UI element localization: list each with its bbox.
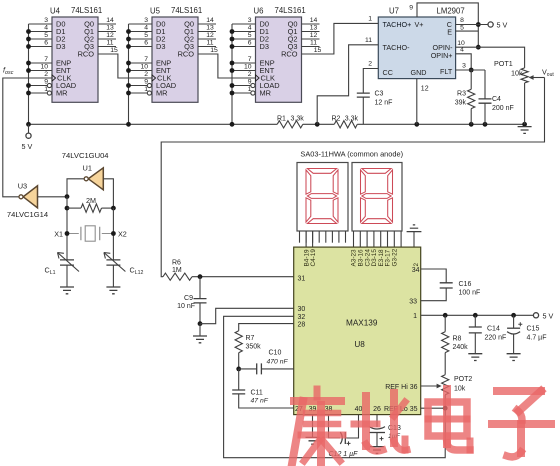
wire C13 to ground <box>376 433 378 447</box>
label 74LVC1GU04 <box>62 151 109 160</box>
svg-text:10: 10 <box>40 64 48 71</box>
svg-text:1: 1 <box>44 86 48 93</box>
display digit 1 segments <box>306 169 338 224</box>
svg-text:3: 3 <box>144 17 148 24</box>
svg-text:6: 6 <box>144 40 148 47</box>
supply terminal 5V right <box>533 313 538 318</box>
label 2M <box>86 196 96 205</box>
wire U5 RCO to U6 CLK <box>198 54 256 78</box>
svg-text:5: 5 <box>460 25 464 32</box>
svg-text:RCO: RCO <box>281 50 298 59</box>
svg-text:POT1: POT1 <box>494 59 513 68</box>
ground under C9 <box>193 336 207 343</box>
wire POT2 bottom <box>444 395 446 408</box>
label SA03-11HWA <box>300 150 403 159</box>
svg-text:12 nF: 12 nF <box>375 100 393 107</box>
label POT2 <box>454 376 472 393</box>
wire C16 to pin 33 <box>421 288 447 301</box>
wire pin 34 to C16 <box>421 269 447 283</box>
svg-text:350k: 350k <box>246 344 262 351</box>
pin 38 label <box>325 406 333 413</box>
svg-text:40: 40 <box>355 406 363 413</box>
svg-text:13: 13 <box>106 25 114 32</box>
svg-text:13: 13 <box>310 25 318 32</box>
label C15 <box>527 326 547 342</box>
capacitor C4 <box>479 99 492 103</box>
svg-text:3.3k: 3.3k <box>291 116 305 123</box>
svg-text:14: 14 <box>310 17 318 24</box>
svg-text:74LVC1G14: 74LVC1G14 <box>7 210 48 219</box>
svg-text:4: 4 <box>144 25 148 32</box>
svg-text:6: 6 <box>248 40 252 47</box>
label U7 <box>389 7 399 16</box>
wire TACHO- to R1/R2 junction <box>317 45 378 125</box>
svg-text:1: 1 <box>413 313 417 320</box>
node fosc wire <box>3 78 52 197</box>
label C3 <box>375 91 393 107</box>
svg-text:2M: 2M <box>86 196 96 205</box>
display digit 2 segments <box>361 169 393 224</box>
svg-text:SA03-11HWA (common anode): SA03-11HWA (common anode) <box>300 150 403 159</box>
svg-text:11: 11 <box>106 40 113 47</box>
svg-text:74LS161: 74LS161 <box>171 6 202 15</box>
resistor R8 <box>442 332 449 353</box>
ground under C15 <box>507 354 521 361</box>
pin 11 label <box>365 37 372 44</box>
capacitor C11 <box>232 390 245 394</box>
junction V+ / C <box>476 22 481 27</box>
capacitor C3 <box>357 93 370 97</box>
junction on rail <box>483 122 488 127</box>
svg-text:3: 3 <box>44 17 48 24</box>
wire C10 right lead <box>261 368 293 370</box>
potentiometer POT1 <box>521 68 528 83</box>
capacitor C14 <box>469 327 482 333</box>
svg-text:OPIN+: OPIN+ <box>431 51 453 60</box>
svg-text:C14: C14 <box>487 326 500 333</box>
svg-text:U3: U3 <box>18 182 27 191</box>
label C14 <box>485 326 507 342</box>
label R7 <box>246 335 262 351</box>
svg-text:11: 11 <box>310 40 317 47</box>
junction on rail <box>26 122 31 127</box>
junction on rail <box>469 122 474 127</box>
wire C15 top lead <box>513 315 515 328</box>
label R2 <box>332 116 359 123</box>
svg-text:74LS161: 74LS161 <box>71 6 102 15</box>
svg-text:11: 11 <box>365 37 372 44</box>
label CL1 <box>45 266 56 277</box>
svg-text:4.7 µF: 4.7 µF <box>527 335 547 342</box>
label X1 <box>54 229 63 238</box>
capacitor C15 (polarized) <box>507 322 522 334</box>
wire CC pin <box>363 69 378 94</box>
svg-text:12: 12 <box>206 32 214 39</box>
label C16 <box>459 281 481 297</box>
label C11 <box>251 390 269 405</box>
svg-text:MR: MR <box>56 89 68 98</box>
svg-text:10k: 10k <box>454 386 466 393</box>
wire C14 to ground <box>474 333 476 354</box>
svg-text:U7: U7 <box>389 7 399 16</box>
junction R6/C9 <box>198 274 203 279</box>
wire pin 28 to R7 <box>239 324 294 331</box>
wire right node vertical <box>112 208 114 260</box>
junction on 5V rail <box>511 313 516 318</box>
svg-text:LM2907: LM2907 <box>437 7 465 16</box>
wire C11 top lead <box>238 369 240 390</box>
svg-text:2: 2 <box>413 263 420 267</box>
svg-text:TACHO+: TACHO+ <box>383 20 412 29</box>
pin 33 label <box>409 299 417 306</box>
junction X1 <box>65 231 70 236</box>
wire OPIN+ pin 4 <box>456 54 472 70</box>
svg-text:4: 4 <box>44 25 48 32</box>
svg-text:5: 5 <box>248 32 252 39</box>
svg-text:1: 1 <box>144 86 148 93</box>
svg-text:10k: 10k <box>511 69 523 78</box>
svg-text:D3: D3 <box>260 42 269 51</box>
pin 34 label <box>412 267 420 274</box>
label REF Hi 36 <box>385 384 417 391</box>
wire U4 RCO to U5 CLK <box>98 54 152 78</box>
svg-text:5: 5 <box>44 32 48 39</box>
capacitor C13 (polarized) <box>369 427 385 441</box>
svg-text:15: 15 <box>110 47 118 54</box>
svg-text:8: 8 <box>460 17 464 24</box>
display digit 2 box <box>352 163 402 232</box>
label MAX139 <box>346 318 378 327</box>
wire display1 B4 riser <box>305 231 307 247</box>
svg-text:POT2: POT2 <box>454 376 472 383</box>
junction E / OPIN- <box>476 45 481 50</box>
wire R3 bottom lead <box>470 109 472 125</box>
ground under C13 <box>370 447 384 454</box>
svg-text:MR: MR <box>156 89 168 98</box>
pin 1 label <box>413 313 417 320</box>
watermark char kang <box>292 389 343 464</box>
svg-text:MAX139: MAX139 <box>346 318 378 327</box>
svg-text:7: 7 <box>248 56 252 63</box>
svg-text:14: 14 <box>206 17 214 24</box>
svg-text:R6: R6 <box>172 260 181 267</box>
junction left node top <box>65 194 70 199</box>
wire U1 output to node <box>67 179 84 197</box>
junction C9/pin30 <box>198 321 203 326</box>
svg-text:12: 12 <box>106 32 114 39</box>
junction on 5V rail <box>473 313 478 318</box>
resistor R1 <box>277 121 303 128</box>
pin 30 label <box>298 306 306 313</box>
supply terminal 5V right of U7 <box>488 22 493 27</box>
label X2 <box>118 229 127 238</box>
ground under C14 <box>468 354 482 361</box>
svg-text:R2: R2 <box>332 116 341 123</box>
pin 3 label <box>462 63 466 70</box>
svg-text:6: 6 <box>44 40 48 47</box>
wire R6 to pin 31 <box>192 276 294 278</box>
node fosc label <box>3 66 14 77</box>
svg-text:5: 5 <box>144 32 148 39</box>
svg-text:200 nF: 200 nF <box>492 105 514 112</box>
label C4 <box>492 96 514 112</box>
svg-text:12: 12 <box>310 32 318 39</box>
wire C11 to pin 27 <box>239 394 294 408</box>
junction 2M left <box>65 206 70 211</box>
junction X2 <box>111 231 116 236</box>
wire C9 top lead <box>199 277 201 299</box>
wire Vout loop <box>161 78 544 277</box>
svg-text:10 nF: 10 nF <box>177 303 195 310</box>
svg-text:C16: C16 <box>459 281 472 288</box>
label U8 <box>354 340 365 349</box>
svg-text:C4-19: C4-19 <box>310 249 317 267</box>
svg-text:1: 1 <box>368 16 372 23</box>
svg-text:7: 7 <box>44 56 48 63</box>
svg-text:C9: C9 <box>184 295 193 302</box>
wire R7 bottom lead <box>238 353 240 369</box>
wire pin 1 5V rail <box>421 314 534 316</box>
label C10 <box>267 350 289 366</box>
ground under CL2 <box>106 287 120 294</box>
resistor 2M <box>81 204 102 212</box>
svg-text:240k: 240k <box>453 344 469 351</box>
counter U4 (74LS161) <box>26 6 118 124</box>
svg-text:14: 14 <box>106 17 114 24</box>
svg-text:MR: MR <box>260 89 272 98</box>
svg-text:15: 15 <box>314 47 322 54</box>
resistor R6 <box>163 273 192 280</box>
wire R8 to POT2 <box>444 353 446 375</box>
pin 39 label <box>309 406 317 413</box>
svg-text:R8: R8 <box>453 336 462 343</box>
pin 10 label <box>457 40 465 47</box>
wire FLT pin 3 <box>456 69 485 71</box>
inverter U3 74LVC1G14 <box>19 186 38 208</box>
svg-text:FLT: FLT <box>440 67 453 76</box>
svg-text:5 V: 5 V <box>543 311 554 320</box>
label C9 <box>177 295 195 310</box>
wire left node vertical <box>66 197 68 260</box>
label R6 <box>172 260 182 275</box>
label C12 <box>329 451 359 458</box>
svg-text:C11: C11 <box>251 390 263 397</box>
svg-text:34: 34 <box>412 267 420 274</box>
svg-text:5 V: 5 V <box>497 20 508 29</box>
junction OPIN+/FLT <box>469 68 474 73</box>
display 2 pins to U8 <box>354 231 402 247</box>
label R8 <box>453 336 469 352</box>
wire C15 to ground <box>513 334 515 354</box>
label R3 <box>455 91 467 107</box>
wire V+ riser pin 9 <box>417 3 478 47</box>
POT1 wiper arrow <box>529 75 545 80</box>
svg-text:R3: R3 <box>457 91 466 98</box>
capacitor C12 (polarized) <box>340 432 350 445</box>
display digit 1 box <box>297 163 348 232</box>
potentiometer POT2 <box>442 375 449 395</box>
wire C9 node to ground <box>199 324 201 336</box>
wire U1 input to right node <box>103 179 113 208</box>
svg-text:9: 9 <box>248 79 252 86</box>
svg-text:9: 9 <box>144 79 148 86</box>
svg-text:3: 3 <box>462 63 466 70</box>
wire CL1 to ground <box>66 265 68 287</box>
watermark char dian <box>428 389 470 450</box>
resistor R3 <box>468 89 475 108</box>
svg-text:31: 31 <box>298 275 306 282</box>
svg-text:RCO: RCO <box>78 50 95 59</box>
wire pin 39 to ground <box>312 415 314 438</box>
svg-text:X2: X2 <box>118 229 127 238</box>
POT2 wiper arrow <box>421 384 442 389</box>
pin 12 label <box>421 86 429 93</box>
pin 4 label <box>460 47 464 54</box>
resistor R2 <box>334 121 357 128</box>
svg-text:RCO: RCO <box>178 50 195 59</box>
svg-text:1: 1 <box>248 86 252 93</box>
pin 5 label <box>460 25 464 32</box>
svg-text:U1: U1 <box>83 163 92 172</box>
resistor R7 <box>235 331 242 353</box>
wire C pin 8 to 5V <box>456 24 488 26</box>
inverter U1 74LVC1GU04 <box>84 168 103 190</box>
wire R8 top lead <box>444 315 446 331</box>
svg-text:2: 2 <box>144 71 148 78</box>
label Vout <box>542 68 554 79</box>
svg-text:U5: U5 <box>150 7 161 16</box>
pin 40 label <box>355 406 363 413</box>
wire 5V stem <box>28 124 30 133</box>
pin 26 label <box>373 406 381 413</box>
svg-text:9: 9 <box>44 79 48 86</box>
svg-text:E: E <box>447 28 452 37</box>
label R1 <box>277 116 304 123</box>
label 5V right of U7 <box>497 20 508 29</box>
label REF Lo 35 <box>384 406 418 413</box>
svg-text:28: 28 <box>298 322 306 329</box>
svg-text:39k: 39k <box>455 100 467 107</box>
label U3 <box>18 182 27 191</box>
watermark char bi <box>354 393 407 451</box>
counter U6 (74LS161) <box>230 6 322 124</box>
inverted ground symbol <box>407 225 422 232</box>
svg-text:33: 33 <box>409 299 417 306</box>
junction on rail <box>315 122 320 127</box>
svg-text:2: 2 <box>44 71 48 78</box>
label CL2 <box>130 266 144 277</box>
pin 27 label <box>295 406 303 413</box>
label 74LVC1G14 <box>7 210 48 219</box>
svg-text:12: 12 <box>421 86 429 93</box>
wire 2M left lead <box>67 207 81 209</box>
pin 8 label <box>460 17 464 24</box>
crystal plates <box>81 227 100 240</box>
wire REF Lo pin 35 <box>421 407 446 409</box>
svg-text:3.3k: 3.3k <box>345 116 359 123</box>
junction on rail <box>522 122 527 127</box>
wire pin 30 <box>200 308 294 323</box>
wire big loop to pin 32 <box>224 316 446 457</box>
label U1 <box>83 163 92 172</box>
wire C10 left lead <box>239 368 257 370</box>
svg-text:30: 30 <box>298 306 306 313</box>
junction on 5V rail <box>443 313 448 318</box>
svg-text:D3: D3 <box>56 42 65 51</box>
junction on rail <box>414 122 419 127</box>
label 5V bottom right <box>543 311 554 320</box>
svg-text:1M: 1M <box>172 267 182 274</box>
wire OPIN- pin 10 to POT1 <box>456 47 525 68</box>
svg-text:32: 32 <box>298 314 306 321</box>
svg-text:26: 26 <box>373 406 381 413</box>
wire C12 to pin 40 <box>345 415 358 438</box>
pin 31 label <box>298 275 306 282</box>
op-amp U7 LM2907 box <box>378 17 455 79</box>
junction on rail <box>126 122 131 127</box>
svg-text:G3-22: G3-22 <box>392 248 399 266</box>
label 5V <box>22 142 33 151</box>
svg-text:U4: U4 <box>50 7 61 16</box>
svg-text:C3: C3 <box>375 91 384 98</box>
svg-text:C4: C4 <box>492 96 501 103</box>
crystal leads <box>67 233 113 235</box>
capacitor C16 <box>440 283 453 288</box>
ground under POT1 <box>518 127 532 134</box>
pin 1 label <box>368 16 372 23</box>
svg-text:C15: C15 <box>527 326 540 333</box>
wire pin 26 to C13 <box>376 415 378 427</box>
capacitor C10 <box>257 363 262 374</box>
svg-text:5 V: 5 V <box>22 142 33 151</box>
wire E pin 5 <box>456 30 479 32</box>
wire C4 bottom lead <box>484 103 486 124</box>
supply terminal 5V <box>26 133 31 138</box>
svg-text:4: 4 <box>248 25 252 32</box>
wire ground rail <box>29 123 525 125</box>
svg-text:470 nF: 470 nF <box>267 359 289 366</box>
wire C4 top lead <box>484 70 486 99</box>
svg-text:C10: C10 <box>269 350 282 357</box>
pin 32 label <box>298 314 306 321</box>
wire CL2 to ground <box>112 265 114 287</box>
wire display1 C4 riser <box>312 231 314 247</box>
ground under CL1 <box>60 287 74 294</box>
pin 28 label <box>298 322 306 329</box>
svg-text:100 nF: 100 nF <box>459 290 481 297</box>
label LM2907 <box>437 7 465 16</box>
svg-text:10: 10 <box>140 64 148 71</box>
svg-text:11: 11 <box>206 40 213 47</box>
svg-text:V+: V+ <box>415 20 424 29</box>
svg-text:3: 3 <box>248 17 252 24</box>
svg-text:13: 13 <box>206 25 214 32</box>
wire pin 38 to C12 <box>329 415 341 438</box>
svg-text:R7: R7 <box>246 335 255 342</box>
capacitor CL1 (trimmer) <box>58 253 80 272</box>
svg-text:74LVC1GU04: 74LVC1GU04 <box>62 151 109 160</box>
wire POT1 bottom <box>524 83 526 124</box>
svg-text:CC: CC <box>383 68 393 77</box>
wire GND pin 12 <box>416 79 418 125</box>
wire C14 top lead <box>474 315 476 327</box>
svg-text:2: 2 <box>248 71 252 78</box>
junction 2M right <box>111 206 116 211</box>
wire R3 top lead <box>470 70 472 89</box>
junction R7/C10/C11 <box>236 367 241 372</box>
svg-text:U8: U8 <box>354 340 365 349</box>
wire 2M right lead <box>102 207 114 209</box>
